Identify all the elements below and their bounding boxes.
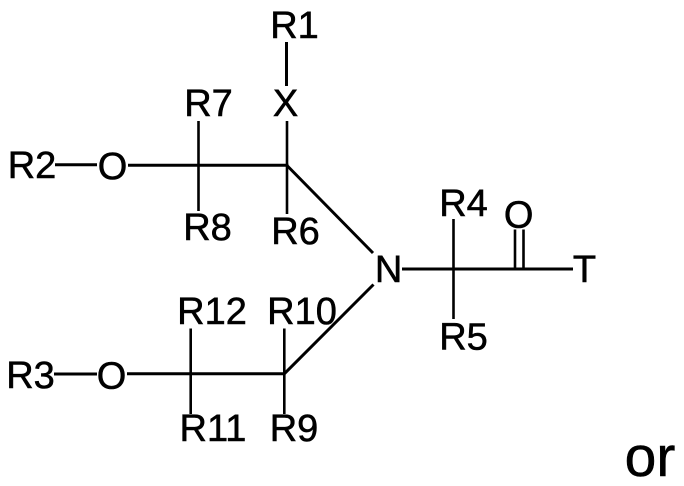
svg-text:R5: R5 <box>439 317 488 359</box>
bond O-C1-C2 <box>128 164 289 167</box>
svg-text:or: or <box>625 425 676 486</box>
svg-text:R2: R2 <box>8 145 57 187</box>
svg-text:R9: R9 <box>270 408 319 450</box>
svg-text:O: O <box>98 146 128 188</box>
bond R1-X <box>285 42 288 86</box>
svg-text:R4: R4 <box>439 183 488 225</box>
svg-text:R12: R12 <box>177 291 247 333</box>
bond R10-C5-R9 <box>283 329 286 415</box>
svg-text:R3: R3 <box>6 355 55 397</box>
bond X-C2-R6 <box>286 121 289 214</box>
svg-text:R8: R8 <box>183 207 232 249</box>
bond R2-O <box>55 163 97 166</box>
svg-text:R1: R1 <box>270 5 319 47</box>
svg-text:T: T <box>573 249 596 291</box>
svg-text:R11: R11 <box>180 408 247 450</box>
svg-text:R10: R10 <box>267 291 337 333</box>
bond R12-C4-R11 <box>189 329 192 415</box>
bond R3-O <box>54 373 97 376</box>
bond N-C3-C(=O)-T <box>402 268 573 271</box>
bond O-C4-C5 <box>127 372 285 375</box>
bond C5-N <box>284 285 373 374</box>
double bond C=O right line <box>522 230 525 268</box>
svg-text:O: O <box>97 356 127 398</box>
bond C2-N <box>287 166 373 254</box>
double bond C=O left line <box>514 230 517 268</box>
svg-text:N: N <box>375 249 402 291</box>
svg-text:X: X <box>273 83 298 125</box>
svg-text:R6: R6 <box>271 211 320 253</box>
svg-text:R7: R7 <box>184 83 233 125</box>
bond R4-C3-R5 <box>452 219 455 319</box>
bond R7-C1-R8 <box>197 121 200 211</box>
svg-text:O: O <box>504 194 534 236</box>
